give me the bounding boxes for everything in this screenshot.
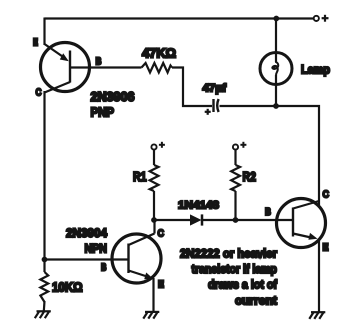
wire: R2 to diode junction xyxy=(234,191,236,220)
wire: R1 terminal to resistor body xyxy=(153,150,155,166)
wire: capacitor to right rail corner xyxy=(220,106,320,206)
svg-text:transistor if lamp: transistor if lamp xyxy=(192,262,278,276)
wire: junction R1 to diode anode xyxy=(154,219,190,221)
ground: below Q2 emitter xyxy=(143,312,159,319)
capacitor C1 47uf (polarized) xyxy=(205,99,219,115)
wire: lamp bottom lead xyxy=(275,75,277,106)
wire: 10K resistor to ground xyxy=(43,301,46,312)
terminal: +V top right xyxy=(314,15,329,22)
svg-text:47μf: 47μf xyxy=(203,83,227,95)
note text: 2N2222 or heavier transistor if lamp draws a lot of current xyxy=(180,247,278,308)
svg-text:E: E xyxy=(33,37,38,49)
wire: R2 terminal to resistor body xyxy=(234,150,236,166)
svg-text:E: E xyxy=(323,242,329,254)
ground: left (below 10K) xyxy=(35,311,51,318)
diode D1 1N4148 xyxy=(190,214,202,225)
svg-text:C: C xyxy=(36,87,42,99)
wire: R1 to diode junction xyxy=(153,191,155,220)
terminal: +V for R2 xyxy=(233,142,247,150)
svg-text:B: B xyxy=(96,56,102,68)
wire: Q2 emitter down to ground xyxy=(152,278,154,312)
node: junction of top rail and lamp xyxy=(273,16,279,22)
svg-text:current: current xyxy=(235,294,277,308)
svg-text:47KΩ: 47KΩ xyxy=(142,46,176,61)
wire: Q2 base wire from left rail xyxy=(45,258,129,260)
svg-text:E: E xyxy=(158,279,164,291)
transistor Q2 2N3904 NPN xyxy=(112,234,161,284)
svg-text:NPN: NPN xyxy=(85,242,108,256)
lamp DS1 xyxy=(260,53,292,85)
svg-text:B: B xyxy=(101,263,107,274)
wire: Q3 emitter down to ground xyxy=(318,240,320,312)
svg-text:1N4148: 1N4148 xyxy=(178,200,219,212)
wire: Q2 collector to junction xyxy=(153,220,155,234)
wire: 47K resistor to corner, down to capacitor level xyxy=(172,68,212,107)
wire: top positive supply rail xyxy=(45,17,314,19)
svg-text:C: C xyxy=(323,189,330,201)
resistor 10KΩ xyxy=(40,272,48,302)
svg-text:R1: R1 xyxy=(133,169,147,184)
svg-text:Lamp: Lamp xyxy=(301,63,330,77)
transistor Q1 2N3906 PNP xyxy=(41,43,142,93)
svg-text:B: B xyxy=(265,207,271,218)
svg-text:2N2222 or heavier: 2N2222 or heavier xyxy=(180,247,277,261)
node: junction left rail / Q2 base wire xyxy=(42,257,48,263)
svg-text:draws a lot of: draws a lot of xyxy=(208,278,278,292)
svg-text:C: C xyxy=(158,228,165,240)
wire: left rail upper segment (top rail to Q1 emitter) xyxy=(43,18,45,46)
svg-text:2N3906: 2N3906 xyxy=(91,90,135,104)
resistor R1 xyxy=(150,165,159,191)
node: junction lamp bottom / capacitor wire xyxy=(273,103,279,109)
wire: left rail lower segment (Q1 collector to 10K resistor) xyxy=(43,91,45,272)
wire: lamp top lead xyxy=(275,19,277,63)
terminal: +V for R1 xyxy=(151,142,165,150)
svg-text:PNP: PNP xyxy=(91,106,115,120)
node: junction R1 / diode / Q2 collector xyxy=(151,217,157,223)
svg-text:2N3904: 2N3904 xyxy=(66,226,107,240)
svg-text:10KΩ: 10KΩ xyxy=(52,280,83,295)
resistor 47KΩ xyxy=(142,63,173,73)
wire: diode cathode to R2 junction and Q3 base xyxy=(202,219,292,221)
transistor Q3 2N2222 NPN xyxy=(277,199,326,248)
resistor R2 xyxy=(231,165,240,191)
node: junction R2 / diode wire xyxy=(233,217,239,223)
ground: below Q3 emitter xyxy=(309,312,325,319)
svg-text:R2: R2 xyxy=(243,169,257,184)
